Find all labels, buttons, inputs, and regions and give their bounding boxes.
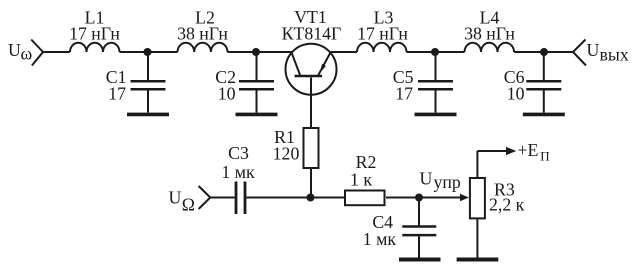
wire transistor to L3 — [331, 51, 357, 53]
label U_Omega — [169, 188, 196, 215]
node C junction dot — [431, 48, 439, 56]
svg-text:10: 10 — [507, 83, 525, 103]
arrow +Ep — [506, 147, 516, 155]
capacitor C6 — [526, 52, 561, 113]
ground C2 — [236, 113, 278, 117]
label U_omega — [8, 40, 33, 64]
input terminal U_Omega — [199, 186, 211, 209]
ground C4 — [399, 258, 441, 262]
label C4 1mk — [363, 212, 397, 249]
wire C3 to node E — [246, 197, 344, 199]
svg-text:17 нГн: 17 нГн — [357, 24, 408, 44]
svg-text:120: 120 — [273, 144, 300, 164]
wire R2 to node F — [386, 197, 460, 199]
svg-text:+E: +E — [518, 140, 539, 160]
svg-text:ω: ω — [21, 44, 33, 64]
node D junction dot — [540, 48, 548, 56]
svg-text:10: 10 — [218, 83, 236, 103]
label L2 38nH — [177, 8, 228, 44]
svg-text:1 мк: 1 мк — [221, 162, 255, 182]
wiper arrow into R3 — [460, 194, 469, 202]
svg-text:U: U — [587, 40, 600, 60]
resistor R1 — [304, 128, 319, 198]
output terminal U_vyh — [573, 40, 586, 66]
wire to +Ep — [477, 150, 506, 152]
label R2 1k — [350, 152, 376, 189]
inductor L3 — [357, 43, 407, 52]
label L4 38nH — [464, 8, 515, 44]
wire U_Omega to C3 — [210, 197, 234, 199]
input terminal U_omega — [31, 40, 43, 66]
svg-text:Ω: Ω — [182, 194, 195, 214]
inductor L1 — [70, 43, 120, 52]
capacitor C2 — [239, 52, 274, 113]
label C1 17 — [106, 67, 127, 103]
inductor L2 — [178, 43, 228, 52]
svg-text:U: U — [169, 188, 182, 208]
label U_vyh — [587, 40, 629, 64]
label C2 10 — [215, 67, 236, 103]
wire L4 to output — [514, 51, 573, 53]
capacitor C4 — [402, 198, 436, 258]
node A junction dot — [144, 48, 152, 56]
label C5 17 — [393, 67, 414, 103]
node E junction dot — [307, 194, 315, 202]
svg-text:17 нГн: 17 нГн — [69, 24, 120, 44]
svg-text:17: 17 — [108, 83, 126, 103]
svg-text:U: U — [420, 169, 433, 189]
ground C6 — [523, 113, 565, 117]
capacitor C3 — [236, 182, 245, 215]
label C3 1mk — [221, 143, 255, 182]
label L1 17nH — [69, 8, 120, 44]
svg-text:38 нГн: 38 нГн — [177, 24, 228, 44]
ground C5 — [415, 113, 457, 117]
transistor VT1 — [286, 44, 337, 127]
svg-text:17: 17 — [395, 83, 413, 103]
ground C1 — [127, 113, 169, 117]
svg-text:1 мк: 1 мк — [363, 229, 397, 249]
resistor R2 — [345, 191, 385, 206]
wire L3 to node C — [407, 51, 465, 53]
svg-text:КТ814Г: КТ814Г — [282, 23, 342, 43]
label U_upr — [420, 169, 461, 193]
ground R3 — [457, 258, 499, 262]
label R3 2.2k — [489, 180, 525, 215]
inductor L4 — [465, 43, 515, 52]
svg-text:упр: упр — [434, 172, 461, 192]
label VT1 KT814G — [282, 7, 342, 44]
wire L1 to node A — [120, 51, 178, 53]
wire L2 to transistor — [228, 51, 292, 53]
label R1 120 — [273, 127, 300, 164]
svg-text:вых: вых — [600, 44, 629, 64]
node F junction dot — [415, 194, 423, 202]
svg-text:C3: C3 — [228, 143, 249, 163]
svg-text:П: П — [540, 148, 549, 163]
label L3 17nH — [357, 8, 408, 44]
svg-text:1 к: 1 к — [350, 169, 372, 189]
label +Ep — [518, 140, 550, 163]
wire input to L1 — [43, 51, 70, 53]
svg-text:U: U — [8, 40, 21, 60]
capacitor C1 — [131, 52, 166, 113]
capacitor C5 — [418, 52, 453, 113]
node B junction dot — [252, 48, 260, 56]
resistor R3 — [470, 151, 485, 258]
svg-text:38 нГн: 38 нГн — [464, 24, 515, 44]
label C6 10 — [504, 67, 525, 103]
svg-text:2,2 к: 2,2 к — [489, 195, 525, 215]
